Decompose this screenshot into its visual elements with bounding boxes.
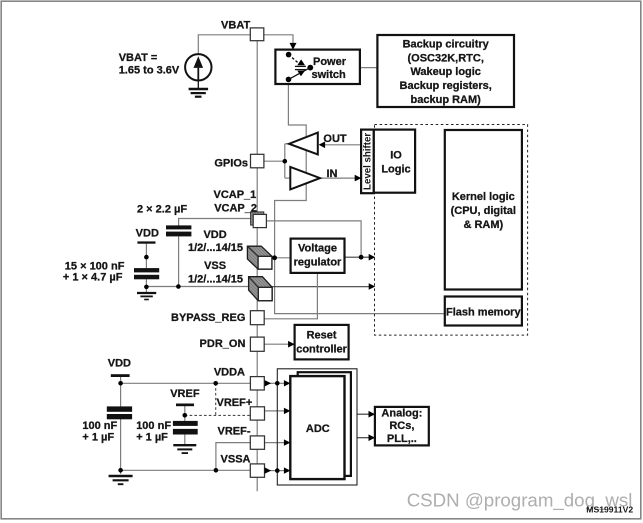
svg-text:2 × 2.2 µF: 2 × 2.2 µF	[137, 204, 187, 216]
svg-text:Reset: Reset	[307, 329, 337, 341]
svg-text:VDD: VDD	[136, 227, 159, 239]
svg-text:IN: IN	[327, 168, 338, 180]
svg-text:VSS: VSS	[204, 260, 226, 272]
svg-text:ADC: ADC	[306, 423, 330, 435]
svg-text:1.65 to 3.6V: 1.65 to 3.6V	[119, 65, 180, 77]
svg-text:VDD: VDD	[108, 358, 131, 370]
svg-text:& RAM): & RAM)	[463, 219, 503, 231]
svg-text:Wakeup logic: Wakeup logic	[410, 66, 481, 78]
svg-text:VDDA: VDDA	[214, 366, 245, 378]
svg-text:+ 1 µF: + 1 µF	[136, 431, 168, 443]
svg-text:100 nF: 100 nF	[136, 420, 171, 432]
svg-text:Analog:: Analog:	[381, 408, 422, 420]
svg-text:VREF-: VREF-	[218, 426, 251, 438]
svg-text:1/2/...14/15: 1/2/...14/15	[188, 242, 243, 254]
svg-text:Logic: Logic	[381, 163, 410, 175]
svg-text:+ 1 µF: + 1 µF	[82, 431, 114, 443]
svg-text:switch: switch	[311, 69, 346, 81]
svg-text:GPIOs: GPIOs	[214, 158, 248, 170]
svg-text:backup RAM): backup RAM)	[411, 94, 482, 106]
svg-text:BYPASS_REG: BYPASS_REG	[171, 312, 245, 324]
svg-text:(OSC32K,RTC,: (OSC32K,RTC,	[407, 52, 483, 64]
svg-text:VBAT =: VBAT =	[119, 52, 158, 64]
svg-text:PDR_ON: PDR_ON	[200, 338, 246, 350]
svg-text:VSSA: VSSA	[221, 453, 251, 465]
svg-text:VCAP_2: VCAP_2	[214, 203, 257, 215]
svg-text:Backup registers,: Backup registers,	[400, 80, 492, 92]
svg-text:Backup circuitry: Backup circuitry	[403, 38, 490, 50]
svg-text:VREF: VREF	[170, 388, 200, 400]
svg-text:+ 1 × 4.7 µF: + 1 × 4.7 µF	[63, 272, 123, 284]
svg-text:VCAP_1: VCAP_1	[214, 189, 257, 201]
svg-text:IO: IO	[390, 150, 402, 162]
svg-text:VBAT: VBAT	[221, 20, 250, 32]
svg-text:OUT: OUT	[323, 133, 347, 145]
svg-text:VDD: VDD	[203, 229, 226, 241]
svg-text:Voltage: Voltage	[298, 243, 337, 255]
svg-text:100 nF: 100 nF	[82, 420, 117, 432]
svg-text:(CPU, digital: (CPU, digital	[451, 205, 516, 217]
svg-text:Level shifter: Level shifter	[362, 133, 373, 190]
svg-text:regulator: regulator	[294, 257, 342, 269]
svg-text:Flash memory: Flash memory	[446, 306, 521, 318]
svg-text:Kernel logic: Kernel logic	[452, 191, 515, 203]
svg-text:1/2/...14/15: 1/2/...14/15	[188, 273, 243, 285]
svg-text:Power: Power	[313, 56, 347, 68]
svg-text:MS19911V2: MS19911V2	[586, 504, 633, 514]
svg-text:PLL,..: PLL,..	[387, 433, 417, 445]
svg-text:RCs,: RCs,	[389, 420, 414, 432]
svg-text:controller: controller	[296, 343, 347, 355]
svg-text:VREF+: VREF+	[217, 397, 253, 409]
